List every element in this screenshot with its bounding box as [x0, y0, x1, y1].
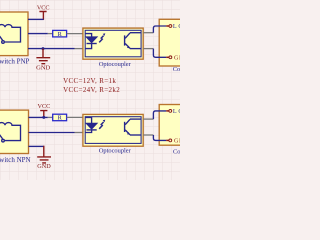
junction dot gnd net	[42, 47, 45, 50]
optocoupler U2 emitter pin	[143, 134, 153, 136]
svg-text:L: L	[173, 24, 177, 30]
connector J1 body	[159, 19, 186, 66]
optocoupler U2 phototransistor	[124, 119, 141, 135]
power VCC (bottom)	[38, 103, 51, 117]
svg-text:R: R	[58, 31, 63, 38]
switch S1 body (Switch PNP)	[0, 12, 28, 56]
connector J2 pin 1	[166, 109, 183, 115]
optocoupler U2 emission arrow	[99, 120, 105, 129]
svg-text:O: O	[178, 109, 180, 115]
optocoupler U2 cathode pin	[75, 132, 84, 134]
wire switch pin1 to R2	[29, 116, 48, 118]
svg-text:R: R	[58, 115, 63, 122]
ground GND (top)	[36, 49, 50, 72]
wire emitter to connector J1 pin 2	[153, 49, 166, 58]
resistor R2 pin right to optocoupler	[67, 116, 83, 118]
power VCC (top)	[37, 4, 50, 20]
svg-text:N: N	[179, 139, 180, 145]
ground GND (bottom)	[37, 146, 51, 170]
svg-text:Conn: Conn	[173, 66, 180, 73]
optocoupler U1 cathode pin	[75, 48, 84, 50]
svg-text:Optocoupler: Optocoupler	[99, 61, 132, 68]
optocoupler U1 LED	[85, 34, 97, 49]
svg-text:Optocoupler: Optocoupler	[99, 148, 132, 155]
svg-text:Switch NPN: Switch NPN	[0, 156, 31, 164]
wire switch pin2 to optocoupler cathode	[29, 132, 75, 134]
optocoupler U1 collector pin	[143, 32, 153, 34]
svg-text:O: O	[178, 24, 180, 30]
wire switch pin2 to R1	[28, 33, 48, 35]
optocoupler U2 collector pin	[143, 118, 153, 120]
svg-text:GND: GND	[36, 65, 50, 72]
svg-text:VCC: VCC	[38, 103, 51, 110]
optocoupler U1 emission arrow	[99, 33, 105, 42]
wire switch pin3 / gnd net	[28, 48, 75, 50]
svg-text:L: L	[173, 109, 177, 115]
optocoupler U1 emitter pin	[143, 48, 153, 50]
svg-text:GND: GND	[37, 163, 51, 170]
svg-text:VCC=12V, R=1k: VCC=12V, R=1k	[63, 77, 116, 85]
connector J1 pin 2	[166, 56, 184, 62]
switch S2 body (Switch NPN)	[0, 110, 29, 153]
svg-text:N: N	[179, 56, 180, 62]
optocoupler U2 LED	[85, 117, 97, 132]
wire switch pin1 to VCC	[28, 18, 44, 20]
connector J2 pin 2	[166, 139, 184, 145]
switch S1 contact symbol	[0, 25, 20, 44]
optocoupler U2 body	[83, 114, 143, 146]
resistor R1 pin right to optocoupler	[67, 33, 83, 35]
connector J1 pin 1	[166, 24, 183, 30]
note text values	[63, 77, 120, 94]
wire switch pin3 to gnd	[29, 145, 45, 147]
connector J2 body	[159, 105, 186, 146]
wire collector to connector J2 pin 1	[153, 111, 166, 119]
svg-text:Conn: Conn	[173, 148, 180, 155]
resistor R1	[53, 30, 67, 38]
junction dot vcc net	[42, 116, 45, 119]
switch S2 contact symbol	[0, 123, 20, 142]
optocoupler U1 body	[83, 28, 143, 59]
resistor R2	[53, 114, 67, 122]
wire collector to connector J1 pin 1	[153, 26, 166, 33]
resistor R2 pin left	[48, 116, 53, 118]
svg-text:VCC=24V, R=2k2: VCC=24V, R=2k2	[63, 86, 120, 94]
resistor R1 pin left	[48, 33, 53, 35]
svg-text:Switch PNP: Switch PNP	[0, 58, 30, 66]
svg-text:VCC: VCC	[37, 4, 50, 11]
wire emitter to connector J2 pin 2	[153, 135, 166, 140]
optocoupler U1 phototransistor	[124, 33, 141, 49]
